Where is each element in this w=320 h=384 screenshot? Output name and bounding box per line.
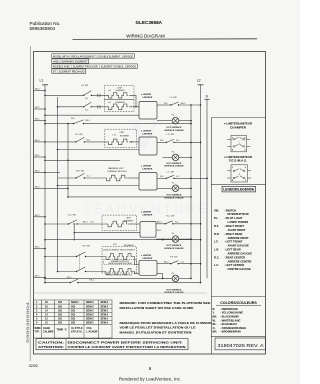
svg-text:SEW-2: SEW-2 [86, 318, 94, 321]
svg-text:UNIT: UNIT [118, 87, 123, 89]
svg-text:200: 200 [58, 305, 63, 308]
limiter 2 box [139, 137, 157, 155]
heating element R.C. coil [107, 221, 127, 227]
junction dots right buses [190, 104, 208, 283]
wire [45, 239, 201, 241]
R.F. element label [113, 244, 135, 247]
model text row 1 [52, 54, 135, 58]
svg-text:R.F.: R.F. [214, 224, 219, 228]
svg-text:L.C. SW: L.C. SW [167, 171, 175, 173]
svg-text:SEW-2: SEW-2 [101, 305, 109, 308]
limiter 4 box [140, 222, 156, 238]
unit element dashed box (L.F. outer) [104, 86, 134, 100]
LEGEND/LEGENDE title box [222, 186, 256, 192]
wire [132, 257, 139, 265]
wire [91, 106, 107, 108]
svg-text:HOT SURFACE: HOT SURFACE [167, 244, 183, 247]
svg-text:HOT SURFACE: HOT SURFACE [167, 288, 183, 291]
switch row5 right [171, 261, 179, 264]
svg-text:- ORANGE/ORANGE: - ORANGE/ORANGE [220, 326, 246, 330]
svg-text:L.C.: L.C. [214, 263, 219, 267]
wire [58, 106, 84, 108]
svg-text:COUPER LE COURANT AVANT D'EFFE: COUPER LE COURANT AVANT D'EFFECTUER LA R… [68, 345, 186, 349]
legend limiter symbol box 2 [227, 165, 251, 182]
wire [45, 159, 120, 161]
wire [129, 106, 139, 108]
svg-text:MODELE AVEC 1 ELEMENT REGULIER: MODELE AVEC 1 ELEMENT REGULIER, 1 ELEMEN… [53, 65, 136, 69]
pilot light P.L. 3 [172, 182, 176, 184]
svg-text:DUAL ELEMENT MODULE ASSY: DUAL ELEMENT MODULE ASSY [103, 249, 136, 252]
svg-text:AVANT DROIT: AVANT DROIT [228, 228, 246, 232]
caution box [36, 339, 188, 350]
svg-text:- RIGHT REAR: - RIGHT REAR [224, 232, 242, 236]
svg-text:● LIMITER/LIMITEUR: ● LIMITER/LIMITEUR [224, 155, 252, 159]
svg-text:318047025 REV. A: 318047025 REV. A [218, 343, 264, 348]
svg-text:L.R. SW: L.R. SW [75, 134, 83, 136]
switch row2 right [166, 139, 174, 142]
switch bridge [74, 120, 84, 124]
remark french [120, 321, 212, 335]
heating element R.F. inner coil [105, 269, 132, 275]
unit element dashed box (L.F. inner) [104, 99, 134, 111]
svg-text:REMARK: FOR CONNECTING THE PLA: REMARK: FOR CONNECTING THE PLATFORM SEE [120, 301, 211, 305]
svg-text:L.F. SW: L.F. SW [81, 85, 88, 87]
switch contact dots [68, 95, 180, 284]
svg-text:R.C. SW: R.C. SW [167, 215, 175, 217]
pilot light P.L. 5 [172, 273, 176, 275]
svg-text:● LIMITER: ● LIMITER [141, 165, 152, 168]
svg-text:SEW-2: SEW-2 [101, 314, 109, 317]
wire [156, 223, 165, 225]
svg-text:ET 1 ELEMENT RECHAUD: ET 1 ELEMENT RECHAUD [53, 70, 85, 74]
main diagram border [34, 52, 266, 355]
svg-text:200: 200 [58, 322, 63, 325]
switch R.C. SW [69, 220, 78, 224]
svg-text:STYLE UL: STYLE UL [71, 331, 83, 334]
svg-text:REMARQUE POUR BRANCHER LA TABL: REMARQUE POUR BRANCHER LA TABLE DE CUISS… [120, 321, 212, 325]
wire [129, 95, 136, 107]
legend limiter symbol box 1 [227, 135, 250, 151]
svg-text:CAUTION:: CAUTION: [38, 340, 64, 344]
unit element dashed box (L.R.) [105, 129, 137, 147]
wire [174, 141, 201, 143]
svg-text:SEW-2: SEW-2 [101, 318, 109, 321]
wire [74, 232, 140, 234]
svg-text:BL.: BL. [213, 322, 218, 326]
svg-text:02/02: 02/02 [29, 364, 38, 368]
switch L.F. SW lower [84, 102, 92, 107]
svg-text:AND 1 WARMING ELEMENT: AND 1 WARMING ELEMENT [53, 60, 88, 64]
warming element coil [106, 175, 128, 181]
wire [78, 282, 201, 284]
svg-text:- YELLOW/JAUNE: - YELLOW/JAUNE [220, 311, 243, 315]
switch warmer [76, 174, 84, 179]
svg-text:COLORS/COULEURS: COLORS/COULEURS [220, 301, 257, 305]
watermark logo V [127, 109, 160, 160]
svg-text:● LIMITER/LIMITEUR: ● LIMITER/LIMITEUR [224, 122, 252, 126]
heating element L.F. outer coil [108, 93, 128, 99]
wire [157, 177, 166, 179]
wire [86, 271, 106, 273]
svg-text:VERROUILLAGE MIJOTAGE: VERROUILLAGE MIJOTAGE [108, 262, 132, 265]
switch bottom [70, 279, 78, 282]
svg-text:O.: O. [213, 326, 216, 330]
switch L.F. SW upper [84, 91, 92, 96]
wire [128, 223, 140, 225]
svg-text:L.F.: L.F. [108, 102, 112, 104]
svg-text:LAMPE TEMOIN: LAMPE TEMOIN [228, 220, 249, 224]
switch L.F. SW right [171, 102, 179, 105]
svg-text:BK.: BK. [213, 315, 218, 319]
svg-text:105: 105 [58, 309, 63, 312]
svg-text:- PILOT LIGHT: - PILOT LIGHT [224, 216, 243, 220]
svg-text:Y.: Y. [213, 311, 215, 315]
right legend column [211, 118, 265, 355]
svg-text:ARRIERE DROIT: ARRIERE DROIT [228, 236, 250, 240]
svg-text:L.R.: L.R. [113, 135, 117, 137]
model text row 4 [52, 69, 86, 73]
svg-text:LIMITEUR: LIMITEUR [143, 258, 153, 260]
svg-text:ELEMENT: ELEMENT [116, 90, 126, 92]
wire [58, 271, 77, 273]
svg-text:AVANT GAUCHE: AVANT GAUCHE [228, 244, 249, 248]
svg-text:MODEL WITH 1 REGULAR ELEMENT,: MODEL WITH 1 REGULAR ELEMENT, 1 DOUBLE E… [53, 54, 133, 58]
svg-text:L.F.: L.F. [108, 90, 112, 92]
bus L1 vertical [44, 85, 46, 283]
svg-text:R.C. SW: R.C. SW [68, 214, 76, 216]
svg-text:105: 105 [58, 301, 63, 304]
svg-text:L1: L1 [40, 79, 44, 83]
svg-text:SEW-2: SEW-2 [101, 309, 109, 312]
svg-text:SW.: SW. [214, 208, 219, 212]
warming unit label [108, 167, 128, 173]
vertical link [73, 224, 75, 240]
svg-text:- LEFT REAR: - LEFT REAR [224, 248, 241, 252]
rail vertical right [190, 105, 192, 278]
heating element R.F. outer coil [105, 254, 132, 260]
svg-text:SGI: SGI [71, 305, 75, 308]
svg-text:LIMITEUR: LIMITEUR [143, 133, 153, 135]
svg-text:- RED/ROUGE: - RED/ROUGE [220, 307, 238, 311]
bus inner vertical V3 [67, 124, 69, 197]
svg-text:- BLACK/NOIR: - BLACK/NOIR [220, 315, 239, 319]
scan fold line [29, 46, 31, 361]
svg-text:● LIMITER: ● LIMITER [141, 254, 152, 257]
svg-text:MANUEL D'UTILISATION ET D'ENTR: MANUEL D'UTILISATION ET D'ENTRETIEN [120, 330, 192, 334]
svg-text:CALIBRE: CALIBRE [43, 331, 54, 334]
svg-text:LEGEND/LEGENDE: LEGEND/LEGENDE [223, 188, 255, 192]
bus inner vertical V2 [57, 97, 59, 272]
svg-text:R.F.: R.F. [113, 244, 117, 246]
pilot light P.L. 4 [172, 233, 176, 235]
wire [58, 177, 77, 179]
svg-text:- LEFT CENTER: - LEFT CENTER [224, 263, 244, 267]
table cell text [35, 301, 109, 333]
svg-text:5995365904: 5995365904 [30, 26, 56, 31]
model description block [52, 54, 138, 74]
switch L.R. SW [76, 137, 84, 142]
svg-text:SGI: SGI [71, 309, 75, 312]
limiter 1 box [139, 102, 157, 120]
svg-text:HOT SURFACE: HOT SURFACE [167, 126, 183, 129]
wire [45, 282, 70, 284]
svg-text:UNIT: UNIT [120, 132, 125, 134]
svg-text:L2: L2 [197, 79, 201, 83]
wire [132, 272, 139, 274]
pilot light P.L. 1 [172, 115, 176, 117]
svg-text:ELEMENT: ELEMENT [120, 136, 130, 138]
svg-text:UNIT: UNIT [126, 217, 131, 219]
wire [129, 141, 139, 143]
svg-text:L'ACNOR: L'ACNOR [87, 331, 98, 334]
node L1 [40, 79, 44, 83]
bottom table [34, 300, 113, 338]
svg-text:ARRIERE CENTRE: ARRIERE CENTRE [228, 259, 252, 263]
connector ticks row1 [97, 94, 99, 97]
wire [128, 177, 139, 179]
wire [45, 94, 84, 96]
svg-text:- BROWN/BRUN: - BROWN/BRUN [220, 330, 241, 334]
svg-text:SGI: SGI [71, 322, 75, 325]
wire [45, 223, 69, 225]
svg-text:SEW-2: SEW-2 [86, 314, 94, 317]
wire [174, 177, 207, 179]
wire [179, 104, 201, 106]
svg-text:ARRIERE GAUCHE: ARRIERE GAUCHE [228, 251, 253, 255]
svg-text:P.L.: P.L. [172, 151, 176, 153]
svg-text:F.E.S./M.A.S.: F.E.S./M.A.S. [229, 159, 247, 163]
svg-text:- SWITCH: - SWITCH [224, 208, 236, 212]
svg-text:R.C.: R.C. [214, 255, 220, 259]
svg-text:LIMITEUR: LIMITEUR [143, 214, 153, 216]
svg-text:- BLUE/BLEU: - BLUE/BLEU [220, 322, 237, 326]
wire [77, 223, 107, 225]
switch R.F. SW lower [77, 267, 86, 272]
limiter 5 box [139, 260, 157, 275]
svg-text:W.: W. [213, 318, 216, 322]
svg-text:SGI: SGI [71, 314, 75, 317]
svg-text:L.R. SW: L.R. SW [167, 134, 175, 136]
remark english [120, 301, 211, 310]
svg-text:SURFACE CHAUDE: SURFACE CHAUDE [164, 247, 184, 250]
svg-text:ATTENTION:: ATTENTION: [38, 345, 64, 349]
wire [58, 149, 140, 151]
svg-text:SURFACE CHAUDE: SURFACE CHAUDE [164, 291, 184, 294]
svg-text:SEW-2: SEW-2 [101, 301, 109, 304]
svg-text:5995365904: 5995365904 [26, 302, 30, 343]
svg-text:WARMING UNIT: WARMING UNIT [108, 167, 124, 170]
svg-text:INTERRUPTEUR: INTERRUPTEUR [228, 212, 249, 216]
svg-text:SEW-2: SEW-2 [86, 305, 94, 308]
svg-text:CENTRE GAUCHE: CENTRE GAUCHE [228, 267, 252, 271]
wire [58, 185, 140, 187]
svg-text:LIMITEUR: LIMITEUR [143, 168, 153, 170]
limiter 4 label [141, 211, 153, 217]
model text row 3 [52, 64, 138, 68]
wire [86, 256, 106, 258]
heating element L.F. inner coil [108, 104, 128, 110]
svg-text:- RIGHT FRONT: - RIGHT FRONT [224, 224, 244, 228]
legend abbreviation list [214, 208, 252, 271]
svg-text:LIMITEUR: LIMITEUR [143, 97, 153, 99]
circuit area [34, 79, 210, 295]
svg-text:SEW-2: SEW-2 [71, 301, 79, 304]
wire [157, 274, 163, 279]
svg-text:VOIR LE FEUILLET D'INSTALLATIO: VOIR LE FEUILLET D'INSTALLATION OU LE [120, 326, 196, 330]
wire [173, 223, 201, 225]
switch row4 right [165, 221, 173, 224]
svg-text:P.L.: P.L. [214, 216, 219, 220]
svg-text:SURFACE CHAUDE: SURFACE CHAUDE [164, 165, 184, 168]
wire [45, 172, 60, 174]
junction dots left buses [44, 90, 69, 284]
svg-text:SGI: SGI [71, 318, 75, 321]
svg-text:ELEMENT MODULE: ELEMENT MODULE [108, 171, 128, 173]
svg-text:SEW-2: SEW-2 [86, 322, 94, 325]
svg-text:SURFACE CHAUDE: SURFACE CHAUDE [164, 129, 184, 132]
switch R.F. SW upper [77, 252, 86, 257]
wire [45, 123, 74, 125]
svg-text:- REAR CENTER: - REAR CENTER [224, 255, 245, 259]
simmer dashed box [102, 247, 137, 273]
svg-text:● LIMITER: ● LIMITER [141, 130, 152, 133]
node N [206, 95, 209, 99]
svg-text:SEW-2: SEW-2 [86, 301, 94, 304]
wire [178, 263, 201, 265]
wire from limiter 2 [157, 141, 166, 143]
svg-text:105: 105 [58, 318, 63, 321]
svg-text:200: 200 [58, 314, 63, 317]
switch link dashed [79, 254, 81, 270]
header underline [73, 38, 258, 41]
part number box [215, 338, 266, 350]
wire [84, 123, 192, 125]
svg-text:SEW-2: SEW-2 [101, 322, 109, 325]
wire [84, 141, 107, 143]
wire [45, 256, 77, 258]
bus N vertical [206, 99, 208, 278]
svg-text:SEW-2: SEW-2 [86, 309, 94, 312]
limiter 3 box [139, 173, 157, 191]
svg-text:INSTALLATION SHEET OR USE CARE: INSTALLATION SHEET OR USE CARE GUIDE [120, 306, 194, 310]
heating element L.R. coil [108, 139, 128, 145]
model text row 2 [52, 59, 89, 63]
svg-text:R.F. SW: R.F. SW [170, 256, 177, 258]
faint return wire [34, 292, 208, 294]
svg-text:L.R.: L.R. [214, 248, 219, 252]
connector ticks row2 [97, 105, 99, 108]
bottom notes / caution / rev [36, 301, 266, 350]
svg-text:R.: R. [213, 307, 216, 311]
svg-text:HOT SURFACE: HOT SURFACE [167, 162, 183, 165]
wire [84, 177, 105, 179]
wire [68, 196, 191, 198]
simmer interlock inner dashed box [104, 260, 137, 265]
svg-text:L.F. SW: L.F. SW [170, 97, 177, 99]
svg-text:- LEFT FRONT: - LEFT FRONT [224, 240, 243, 244]
svg-text:P.L.: P.L. [172, 182, 176, 184]
wire [91, 94, 107, 96]
svg-text:R.R.: R.R. [214, 232, 220, 236]
svg-text:P.L.: P.L. [172, 273, 176, 275]
svg-text:TEMP. °C: TEMP. °C [57, 329, 68, 332]
wire [45, 114, 139, 116]
pilot light P.L. 2 [172, 151, 176, 153]
svg-text:P.L.: P.L. [172, 233, 176, 235]
svg-text:DISCONNECT POWER BEFORE SERVIC: DISCONNECT POWER BEFORE SERVICING UNIT. [68, 340, 183, 344]
svg-text:● LIMITER: ● LIMITER [141, 211, 152, 214]
svg-text:- WHITE/BLANC: - WHITE/BLANC [220, 318, 241, 322]
left border stub wires [34, 91, 69, 278]
svg-text:BR.: BR. [213, 330, 218, 334]
svg-text:P.L.: P.L. [172, 115, 176, 117]
svg-text:GLEC3658A: GLEC3658A [136, 20, 163, 25]
wire [157, 263, 171, 265]
svg-text:WIRING DIAGRAM: WIRING DIAGRAM [126, 33, 165, 38]
limiter 5 label [141, 254, 153, 260]
unit element dashed box (R.C.) [102, 215, 137, 230]
limiter 2 label [141, 130, 153, 136]
node L2 [197, 79, 201, 83]
bus L2 vertical [200, 85, 202, 283]
svg-text:HOT SURFACE: HOT SURFACE [167, 194, 183, 197]
legend divider [211, 183, 265, 185]
wire [45, 141, 76, 143]
colors box [211, 296, 265, 298]
table column lines [41, 300, 43, 338]
switch row3 right [166, 175, 174, 178]
svg-text:ELEMENT DOUBLE MODULE: ELEMENT DOUBLE MODULE [106, 275, 133, 277]
svg-text:L.F.: L.F. [214, 240, 219, 244]
table row lines [34, 303, 113, 305]
limiter 1 label [141, 93, 153, 99]
svg-text:● LIMITER: ● LIMITER [141, 93, 152, 96]
wire [157, 104, 171, 106]
svg-text:Rendered by LeadVenture, Inc.: Rendered by LeadVenture, Inc. [119, 377, 181, 382]
limiter 3 label [141, 165, 153, 171]
legend column divider / box [211, 117, 265, 119]
header: Publication No. [30, 21, 61, 31]
svg-text:TYP.: TYP. [35, 331, 40, 334]
svg-text:W.E. SW: W.E. SW [76, 171, 84, 173]
svg-text:CHAMPER: CHAMPER [230, 125, 246, 129]
svg-text:R.F. SW: R.F. SW [83, 245, 90, 247]
